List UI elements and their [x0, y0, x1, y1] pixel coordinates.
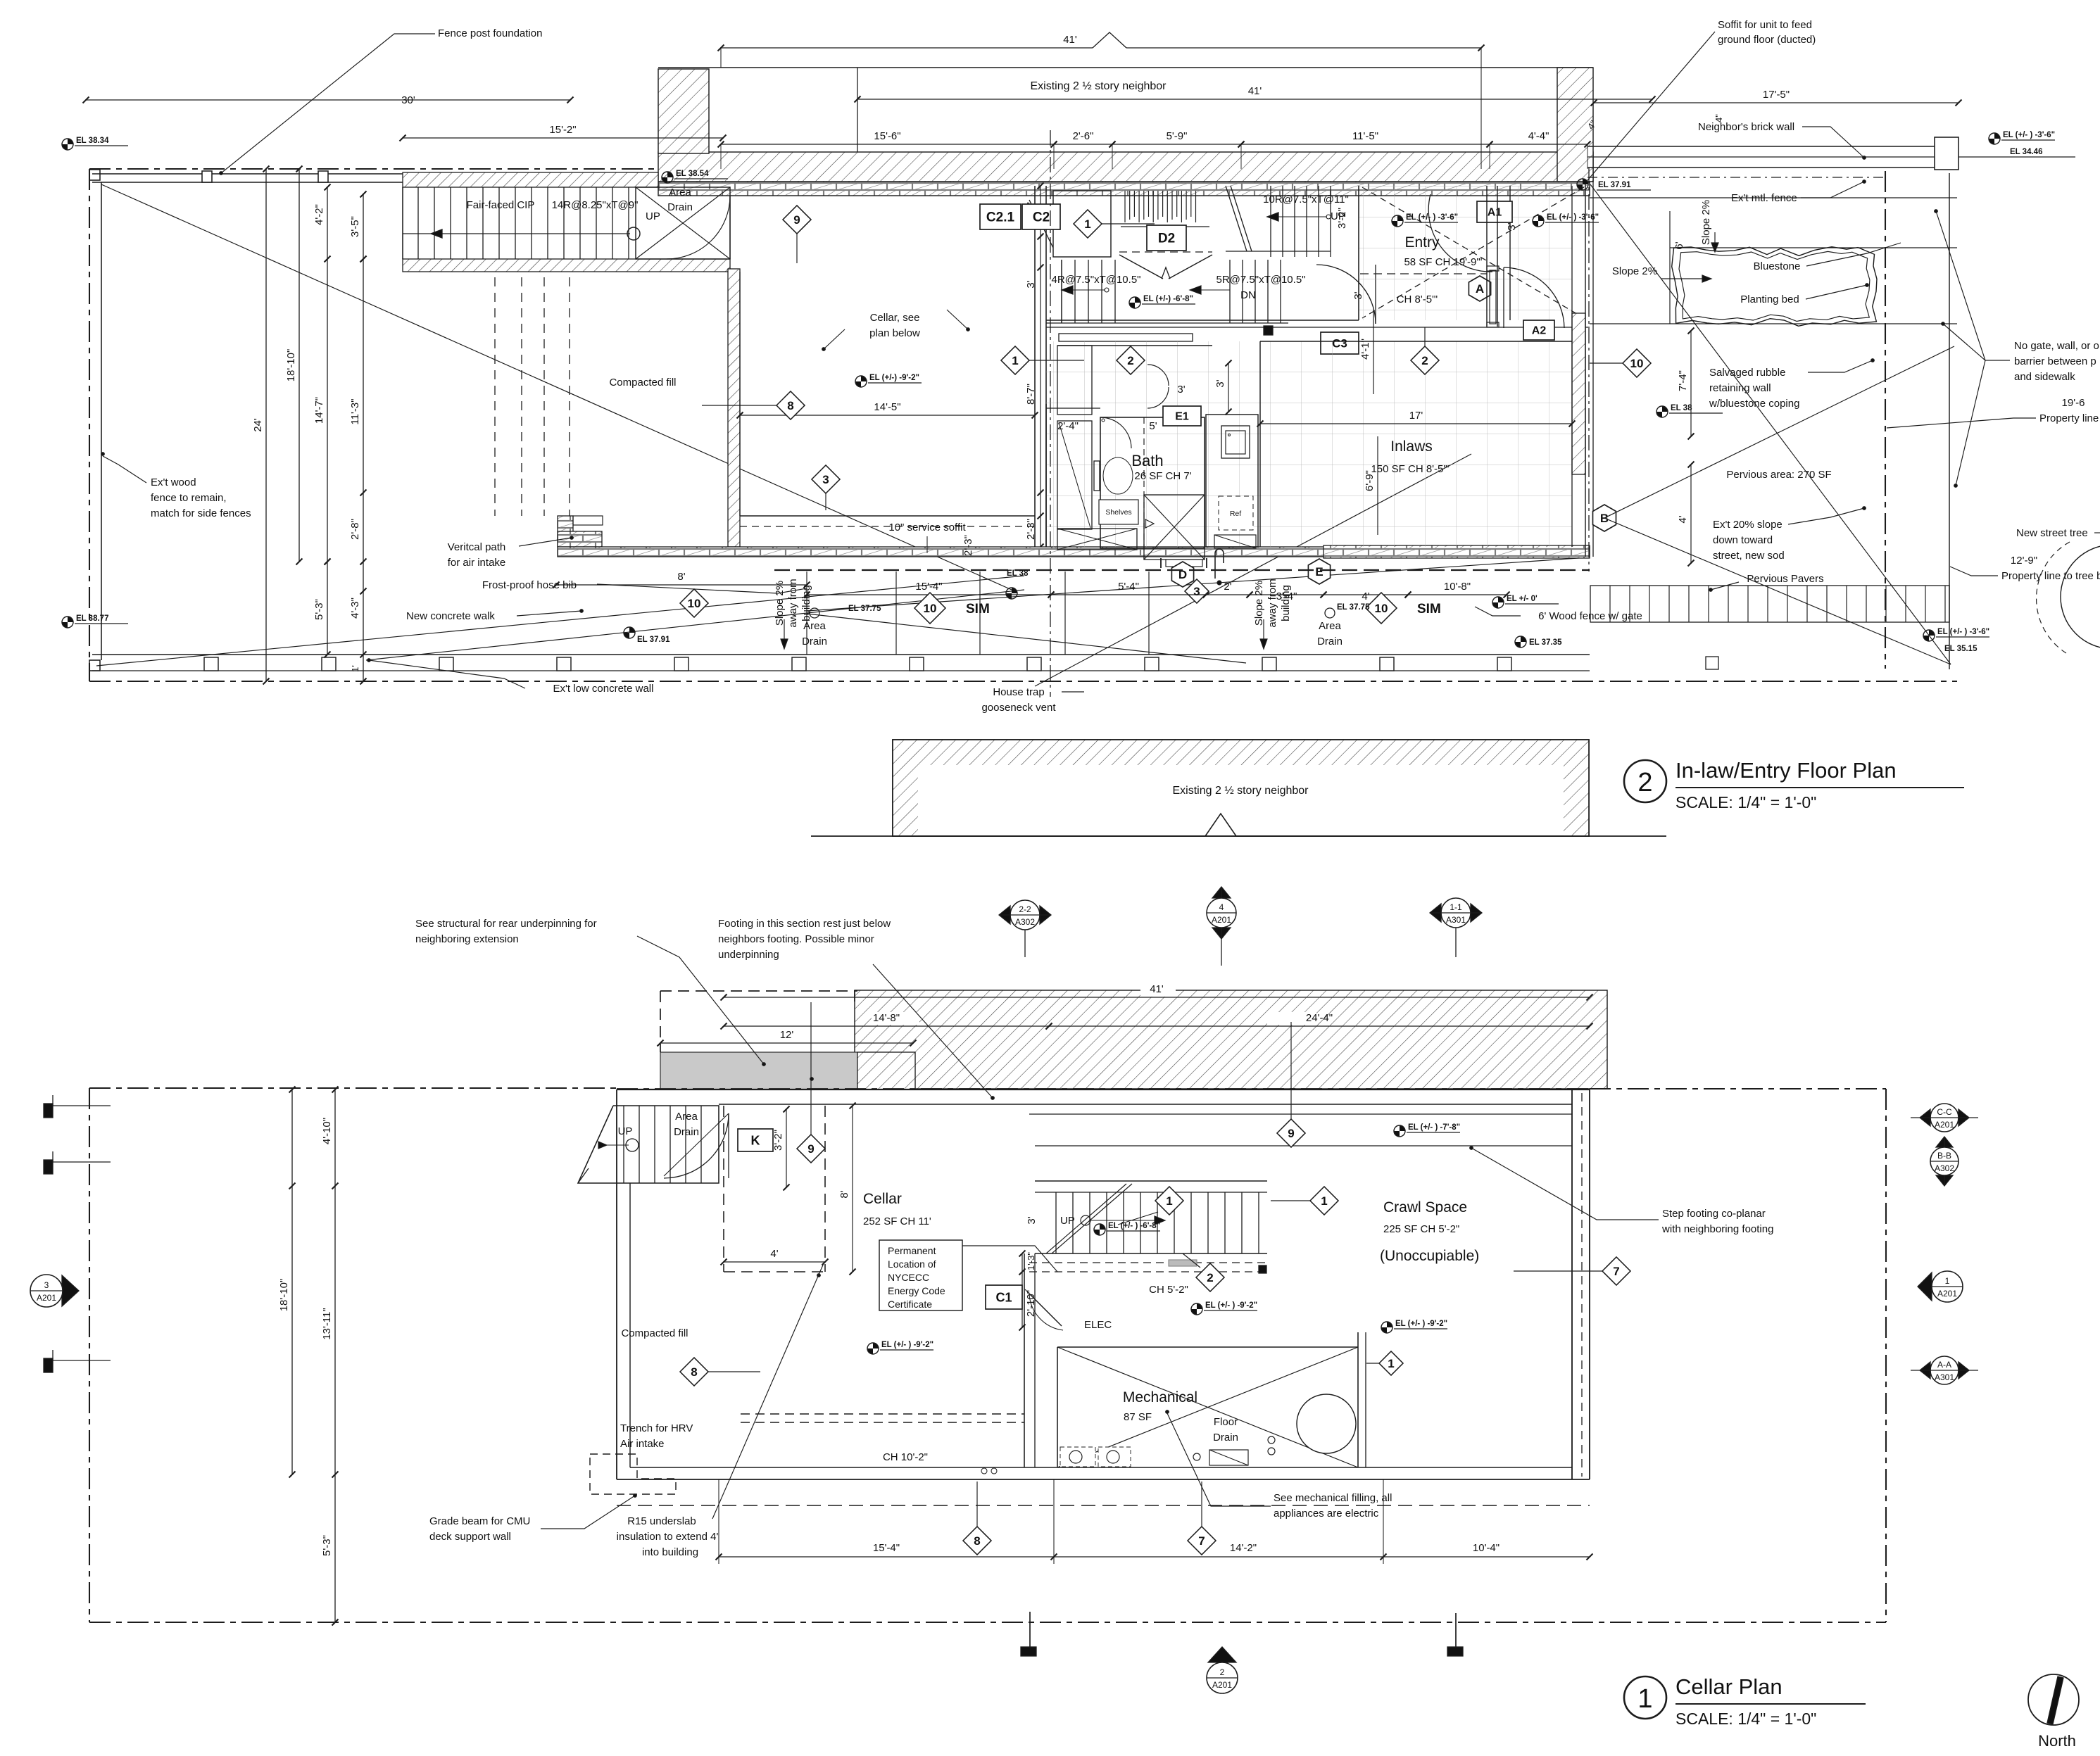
svg-text:3'-2": 3'-2" [1336, 208, 1348, 229]
svg-text:4: 4 [1219, 902, 1224, 912]
svg-text:Energy Code: Energy Code [888, 1285, 945, 1296]
svg-text:SIM: SIM [1417, 602, 1441, 617]
svg-text:3': 3' [1214, 379, 1226, 387]
svg-text:Existing 2 ½ story neighbor: Existing 2 ½ story neighbor [1031, 80, 1167, 92]
svg-text:6' Wood fence w/ gate: 6' Wood fence w/ gate [1538, 610, 1642, 622]
svg-text:18'-10": 18'-10" [278, 1279, 290, 1312]
svg-text:Drain: Drain [674, 1126, 699, 1138]
svg-text:Pervious area: 270 SF: Pervious area: 270 SF [1726, 469, 1831, 481]
svg-text:10R@7.5"xT@11": 10R@7.5"xT@11" [1263, 194, 1349, 206]
svg-text:EL 38.54: EL 38.54 [676, 170, 709, 178]
svg-text:Bluestone: Bluestone [1754, 260, 1801, 272]
svg-text:3': 3' [1177, 384, 1185, 396]
svg-text:A302: A302 [1935, 1163, 1954, 1173]
svg-text:EL 38.34: EL 38.34 [76, 137, 109, 145]
svg-text:(Unoccupiable): (Unoccupiable) [1380, 1248, 1479, 1264]
svg-text:Area: Area [669, 187, 691, 198]
svg-text:with neighboring footing: with neighboring footing [1661, 1223, 1773, 1235]
svg-text:EL 37.75: EL 37.75 [1337, 603, 1370, 612]
svg-text:1: 1 [1388, 1357, 1394, 1370]
svg-text:3'-5": 3'-5" [349, 216, 361, 237]
svg-text:2: 2 [1220, 1667, 1225, 1677]
svg-text:building: building [1280, 585, 1292, 621]
svg-text:A302: A302 [1015, 917, 1035, 927]
svg-text:C-C: C-C [1937, 1107, 1952, 1117]
svg-text:In-law/Entry Floor Plan: In-law/Entry Floor Plan [1675, 758, 1897, 783]
svg-text:5R@7.5"xT@10.5": 5R@7.5"xT@10.5" [1216, 274, 1306, 286]
svg-text:EL 37.91: EL 37.91 [1598, 181, 1631, 189]
svg-text:Ref: Ref [1230, 510, 1241, 518]
svg-text:gooseneck vent: gooseneck vent [981, 702, 1056, 714]
svg-text:A1: A1 [1488, 207, 1502, 219]
svg-text:6': 6' [1673, 241, 1685, 249]
svg-text:17'-5": 17'-5" [1763, 89, 1790, 101]
svg-text:SIM: SIM [966, 602, 990, 617]
svg-text:down toward: down toward [1713, 534, 1773, 546]
svg-text:Fence post foundation: Fence post foundation [438, 27, 542, 39]
svg-text:8'-7": 8'-7" [1025, 384, 1037, 405]
svg-text:insulation to extend 4': insulation to extend 4' [617, 1531, 719, 1543]
svg-text:Ex't low concrete wall: Ex't low concrete wall [553, 683, 654, 695]
svg-text:EL (+/-) -6'-8": EL (+/-) -6'-8" [1143, 295, 1193, 303]
svg-text:Slope 2%: Slope 2% [1253, 581, 1265, 626]
svg-text:3'-2": 3'-2" [772, 1130, 784, 1151]
svg-text:4'-2": 4'-2" [313, 204, 325, 225]
svg-text:K: K [751, 1133, 760, 1147]
svg-text:13'-11": 13'-11" [321, 1308, 333, 1339]
svg-text:SCALE: 1/4" = 1'-0": SCALE: 1/4" = 1'-0" [1675, 793, 1816, 811]
svg-text:Neighbor's brick wall: Neighbor's brick wall [1698, 121, 1794, 133]
svg-text:41': 41' [1248, 85, 1262, 97]
svg-text:EL 35.15: EL 35.15 [1944, 645, 1978, 653]
svg-text:Soffit for unit to feed: Soffit for unit to feed [1718, 19, 1812, 31]
svg-text:Compacted fill: Compacted fill [609, 377, 676, 389]
svg-text:Salvaged rubble: Salvaged rubble [1709, 367, 1785, 379]
svg-text:See mechanical filling, all: See mechanical filling, all [1274, 1492, 1392, 1504]
svg-text:EL 37.75: EL 37.75 [848, 605, 881, 613]
svg-text:No gate, wall, or o: No gate, wall, or o [2014, 340, 2099, 352]
svg-text:4'-10": 4'-10" [321, 1118, 333, 1144]
svg-text:2: 2 [1637, 768, 1652, 797]
svg-text:C2: C2 [1033, 210, 1050, 225]
svg-text:8': 8' [838, 1190, 850, 1198]
svg-text:14'-7": 14'-7" [313, 397, 325, 424]
svg-text:Bath: Bath [1131, 452, 1163, 469]
svg-text:R15 underslab: R15 underslab [627, 1515, 696, 1527]
svg-text:EL (+/-) -9'-2": EL (+/-) -9'-2" [869, 374, 919, 382]
svg-text:1': 1' [350, 665, 360, 672]
svg-text:Location of: Location of [888, 1258, 936, 1270]
svg-text:150 SF CH 8'-5"': 150 SF CH 8'-5"' [1371, 463, 1449, 475]
svg-text:away from: away from [787, 579, 799, 627]
svg-text:EL 37.91: EL 37.91 [637, 636, 670, 644]
svg-text:Certificate: Certificate [888, 1299, 932, 1310]
svg-text:Property line: Property line [2039, 412, 2099, 424]
svg-text:4'-4": 4'-4" [1528, 130, 1549, 142]
svg-text:10'-8": 10'-8" [1444, 581, 1471, 593]
svg-text:4': 4' [1677, 515, 1689, 523]
svg-text:2'-3": 2'-3" [1025, 519, 1037, 540]
svg-text:Existing 2 ½ story neighbor: Existing 2 ½ story neighbor [1173, 785, 1309, 797]
svg-text:Drain: Drain [1213, 1432, 1238, 1444]
svg-text:6'-9": 6'-9" [1364, 470, 1376, 491]
svg-text:EL (+/- ) -3'-6": EL (+/- ) -3'-6" [1937, 628, 1989, 636]
svg-text:Property line to tree bed: Property line to tree bed [2001, 570, 2100, 582]
svg-text:underpinning: underpinning [718, 949, 779, 961]
svg-text:North: North [2038, 1732, 2076, 1750]
svg-text:A201: A201 [1935, 1120, 1954, 1130]
svg-text:30': 30' [401, 94, 415, 106]
svg-text:41': 41' [1150, 983, 1164, 995]
svg-text:ELEC: ELEC [1084, 1319, 1112, 1331]
svg-text:3': 3' [1352, 291, 1364, 299]
svg-text:UP: UP [618, 1125, 633, 1137]
svg-text:New concrete walk: New concrete walk [406, 610, 495, 622]
svg-text:2-2: 2-2 [1019, 904, 1031, 914]
svg-text:Area: Area [675, 1111, 698, 1123]
svg-text:2'-4": 2'-4" [1057, 420, 1079, 432]
svg-text:19'-6: 19'-6 [2062, 397, 2085, 409]
svg-text:15'-4": 15'-4" [873, 1542, 900, 1554]
svg-text:SCALE: 1/4" = 1'-0": SCALE: 1/4" = 1'-0" [1675, 1710, 1816, 1728]
svg-text:10: 10 [1630, 357, 1644, 370]
svg-text:Cellar: Cellar [863, 1191, 902, 1207]
svg-text:3: 3 [44, 1280, 49, 1290]
svg-text:street, new sod: street, new sod [1713, 550, 1785, 562]
svg-text:9: 9 [1288, 1127, 1294, 1140]
svg-text:3': 3' [1506, 222, 1518, 230]
svg-text:3': 3' [1026, 1216, 1038, 1224]
svg-text:9: 9 [793, 213, 800, 227]
svg-text:12': 12' [780, 1029, 794, 1041]
svg-text:9: 9 [807, 1142, 814, 1156]
svg-text:3': 3' [1025, 280, 1037, 288]
svg-text:Slope 2%: Slope 2% [774, 581, 786, 626]
svg-text:EL (+/- ) -9'-2": EL (+/- ) -9'-2" [1205, 1301, 1257, 1310]
svg-text:1: 1 [1084, 217, 1090, 231]
svg-text:Floor: Floor [1214, 1416, 1238, 1428]
svg-text:Footing in this section rest j: Footing in this section rest just below [718, 918, 891, 930]
svg-text:C2.1: C2.1 [986, 210, 1015, 225]
svg-text:Trench for HRV: Trench for HRV [620, 1422, 693, 1434]
svg-text:7'-4": 7'-4" [1677, 370, 1689, 391]
svg-text:A-A: A-A [1937, 1360, 1951, 1370]
svg-text:EL 38: EL 38 [1007, 569, 1029, 578]
svg-text:A: A [1476, 282, 1484, 296]
svg-text:Shelves: Shelves [1105, 508, 1131, 517]
svg-text:B-B: B-B [1937, 1151, 1951, 1161]
svg-text:A201: A201 [37, 1293, 56, 1303]
svg-text:New street tree: New street tree [2016, 527, 2088, 539]
svg-text:4R@7.5"xT@10.5": 4R@7.5"xT@10.5" [1052, 274, 1141, 286]
svg-text:EL (+/- ) -3'-6": EL (+/- ) -3'-6" [1406, 213, 1458, 222]
svg-text:EL +/- 0': EL +/- 0' [1507, 595, 1538, 603]
svg-text:8': 8' [677, 571, 685, 583]
svg-text:House trap: House trap [993, 686, 1044, 698]
svg-text:E1: E1 [1175, 411, 1189, 423]
svg-text:8: 8 [691, 1365, 697, 1379]
svg-text:Ex't wood: Ex't wood [151, 476, 196, 488]
svg-text:A201: A201 [1212, 915, 1231, 925]
svg-text:1: 1 [1012, 354, 1018, 367]
svg-text:2: 2 [1207, 1271, 1213, 1284]
svg-text:2'-6": 2'-6" [1073, 130, 1094, 142]
svg-text:Area: Area [1319, 620, 1341, 632]
svg-text:for air intake: for air intake [448, 557, 506, 569]
svg-text:15'-4": 15'-4" [915, 581, 942, 593]
svg-text:A201: A201 [1212, 1680, 1232, 1690]
svg-text:225 SF CH 5'-2": 225 SF CH 5'-2" [1383, 1223, 1459, 1235]
svg-text:EL 37.35: EL 37.35 [1529, 638, 1562, 647]
svg-text:CH 10'-2": CH 10'-2" [883, 1451, 928, 1463]
svg-text:14R@8.25"xT@9": 14R@8.25"xT@9" [552, 199, 639, 211]
svg-text:Air intake: Air intake [620, 1438, 665, 1450]
svg-text:2'-3": 2'-3" [962, 535, 974, 556]
svg-text:EL (+/- ) -3'-6": EL (+/- ) -3'-6" [1547, 213, 1599, 222]
svg-text:11'-3": 11'-3" [349, 398, 361, 424]
svg-text:Slope 2%: Slope 2% [1700, 200, 1712, 245]
svg-text:18'-10": 18'-10" [285, 349, 297, 382]
svg-text:EL (+/- ) -9'-2": EL (+/- ) -9'-2" [881, 1341, 933, 1349]
svg-text:Ex't mtl. fence: Ex't mtl. fence [1731, 192, 1797, 204]
svg-text:24'-4": 24'-4" [1306, 1012, 1333, 1024]
svg-text:ground floor (ducted): ground floor (ducted) [1718, 34, 1816, 46]
svg-text:UP: UP [1060, 1215, 1075, 1227]
svg-text:Ex't 20% slope: Ex't 20% slope [1713, 519, 1783, 531]
svg-text:11'-5": 11'-5" [1352, 130, 1378, 142]
svg-text:D2: D2 [1158, 232, 1175, 246]
svg-text:deck support wall: deck support wall [429, 1531, 511, 1543]
svg-text:5'-9": 5'-9" [1167, 130, 1188, 142]
svg-text:1: 1 [1166, 1194, 1172, 1208]
svg-text:41': 41' [1063, 34, 1077, 46]
svg-text:Cellar, see: Cellar, see [870, 312, 920, 324]
svg-text:Fair-faced CIP: Fair-faced CIP [467, 199, 535, 211]
svg-text:8: 8 [974, 1534, 980, 1548]
svg-text:5'-4": 5'-4" [1118, 581, 1139, 593]
svg-text:UP: UP [646, 210, 660, 222]
svg-text:Compacted fill: Compacted fill [621, 1327, 688, 1339]
svg-text:3: 3 [1193, 585, 1200, 598]
svg-text:A301: A301 [1446, 915, 1466, 925]
svg-text:Cellar Plan: Cellar Plan [1675, 1674, 1783, 1699]
svg-text:EL (+/- ) -3'-6": EL (+/- ) -3'-6" [2003, 131, 2055, 139]
svg-text:2: 2 [1421, 354, 1428, 367]
svg-text:5'-3": 5'-3" [321, 1535, 333, 1556]
svg-text:EL 38.77: EL 38.77 [76, 614, 108, 623]
svg-text:24': 24' [252, 418, 264, 432]
svg-text:DN: DN [1240, 289, 1256, 301]
svg-text:10: 10 [1375, 602, 1388, 615]
svg-text:building: building [800, 585, 812, 621]
svg-text:EL (+/- ) -6'-8": EL (+/- ) -6'-8" [1108, 1222, 1160, 1230]
svg-text:into building: into building [642, 1546, 698, 1558]
svg-text:14'-5": 14'-5" [874, 401, 900, 413]
svg-text:EL 38: EL 38 [1671, 404, 1692, 412]
svg-text:Drain: Drain [1317, 636, 1343, 648]
svg-text:fence to remain,: fence to remain, [151, 492, 227, 504]
svg-text:4': 4' [1362, 590, 1369, 602]
svg-text:4': 4' [770, 1248, 778, 1260]
svg-text:Planting bed: Planting bed [1740, 293, 1799, 305]
svg-text:4'-3": 4'-3" [349, 598, 361, 619]
svg-text:8: 8 [787, 399, 793, 412]
svg-text:match for side fences: match for side fences [151, 507, 251, 519]
svg-text:appliances are electric: appliances are electric [1274, 1508, 1379, 1520]
svg-text:away from: away from [1266, 579, 1278, 627]
svg-text:EL 34.46: EL 34.46 [2010, 148, 2042, 156]
svg-text:87 SF: 87 SF [1124, 1411, 1152, 1423]
svg-text:1: 1 [1945, 1276, 1950, 1286]
svg-text:Drain: Drain [802, 636, 827, 648]
svg-text:A301: A301 [1935, 1372, 1954, 1382]
svg-text:Inlaws: Inlaws [1390, 438, 1433, 455]
svg-text:and sidewalk: and sidewalk [2014, 371, 2075, 383]
svg-text:4": 4" [1714, 114, 1724, 122]
svg-text:15'-2": 15'-2" [549, 124, 576, 136]
svg-text:EL (+/- ) -7'-8": EL (+/- ) -7'-8" [1408, 1123, 1460, 1132]
svg-text:2: 2 [1127, 354, 1133, 367]
svg-text:plan below: plan below [869, 327, 920, 339]
svg-text:1: 1 [1637, 1684, 1652, 1714]
svg-text:10: 10 [688, 597, 701, 610]
svg-text:3: 3 [822, 473, 829, 486]
svg-text:C1: C1 [995, 1290, 1012, 1304]
svg-text:Slope 2%: Slope 2% [1612, 265, 1657, 277]
svg-text:2': 2' [1224, 581, 1231, 593]
svg-text:EL (+/- ) -9'-2": EL (+/- ) -9'-2" [1395, 1320, 1447, 1328]
svg-text:14'-2": 14'-2" [1230, 1542, 1257, 1554]
svg-text:4'-1": 4'-1" [1359, 339, 1371, 360]
svg-text:2'-8": 2'-8" [349, 519, 361, 540]
svg-text:See structural for rear underp: See structural for rear underpinning for [415, 918, 597, 930]
svg-text:7: 7 [1198, 1534, 1205, 1548]
svg-text:5'-3": 5'-3" [313, 599, 325, 620]
svg-text:barrier between p: barrier between p [2014, 355, 2096, 367]
svg-text:1-1: 1-1 [1450, 902, 1462, 912]
svg-text:Step footing co-planar: Step footing co-planar [1662, 1208, 1766, 1220]
svg-text:Drain: Drain [667, 201, 693, 213]
svg-text:14'-8": 14'-8" [873, 1012, 900, 1024]
svg-text:E: E [1315, 565, 1323, 579]
svg-text:26 SF CH 7': 26 SF CH 7' [1134, 470, 1191, 482]
svg-text:Veritcal path: Veritcal path [448, 541, 506, 553]
svg-text:Frost-proof hose bib: Frost-proof hose bib [482, 579, 577, 591]
svg-text:Permanent: Permanent [888, 1245, 936, 1256]
svg-text:252 SF CH 11': 252 SF CH 11' [863, 1215, 931, 1227]
svg-text:neighboring extension: neighboring extension [415, 933, 519, 945]
svg-text:w/bluestone coping: w/bluestone coping [1709, 398, 1799, 410]
svg-text:10" service soffit: 10" service soffit [888, 522, 966, 533]
svg-text:1: 1 [1321, 1194, 1327, 1208]
svg-text:15'-6": 15'-6" [874, 130, 900, 142]
svg-text:NYCECC: NYCECC [888, 1272, 929, 1283]
svg-text:7: 7 [1613, 1265, 1619, 1278]
svg-text:Mechanical: Mechanical [1123, 1389, 1197, 1406]
svg-text:A2: A2 [1532, 325, 1547, 337]
svg-text:5': 5' [1149, 420, 1157, 432]
svg-text:CH 8'-5"': CH 8'-5"' [1397, 293, 1438, 305]
svg-text:10'-4": 10'-4" [1473, 1542, 1499, 1554]
svg-text:A201: A201 [1937, 1289, 1957, 1299]
svg-text:Grade beam for CMU: Grade beam for CMU [429, 1515, 530, 1527]
svg-text:58 SF CH 19'-9"': 58 SF CH 19'-9"' [1404, 256, 1482, 268]
svg-text:CH 5'-2": CH 5'-2" [1149, 1284, 1188, 1296]
svg-text:Crawl Space: Crawl Space [1383, 1199, 1467, 1215]
svg-text:12'-9": 12'-9" [2011, 555, 2037, 567]
svg-text:10: 10 [924, 602, 937, 615]
svg-text:17': 17' [1409, 410, 1423, 422]
svg-text:neighbors footing. Possible mi: neighbors footing. Possible minor [718, 933, 874, 945]
